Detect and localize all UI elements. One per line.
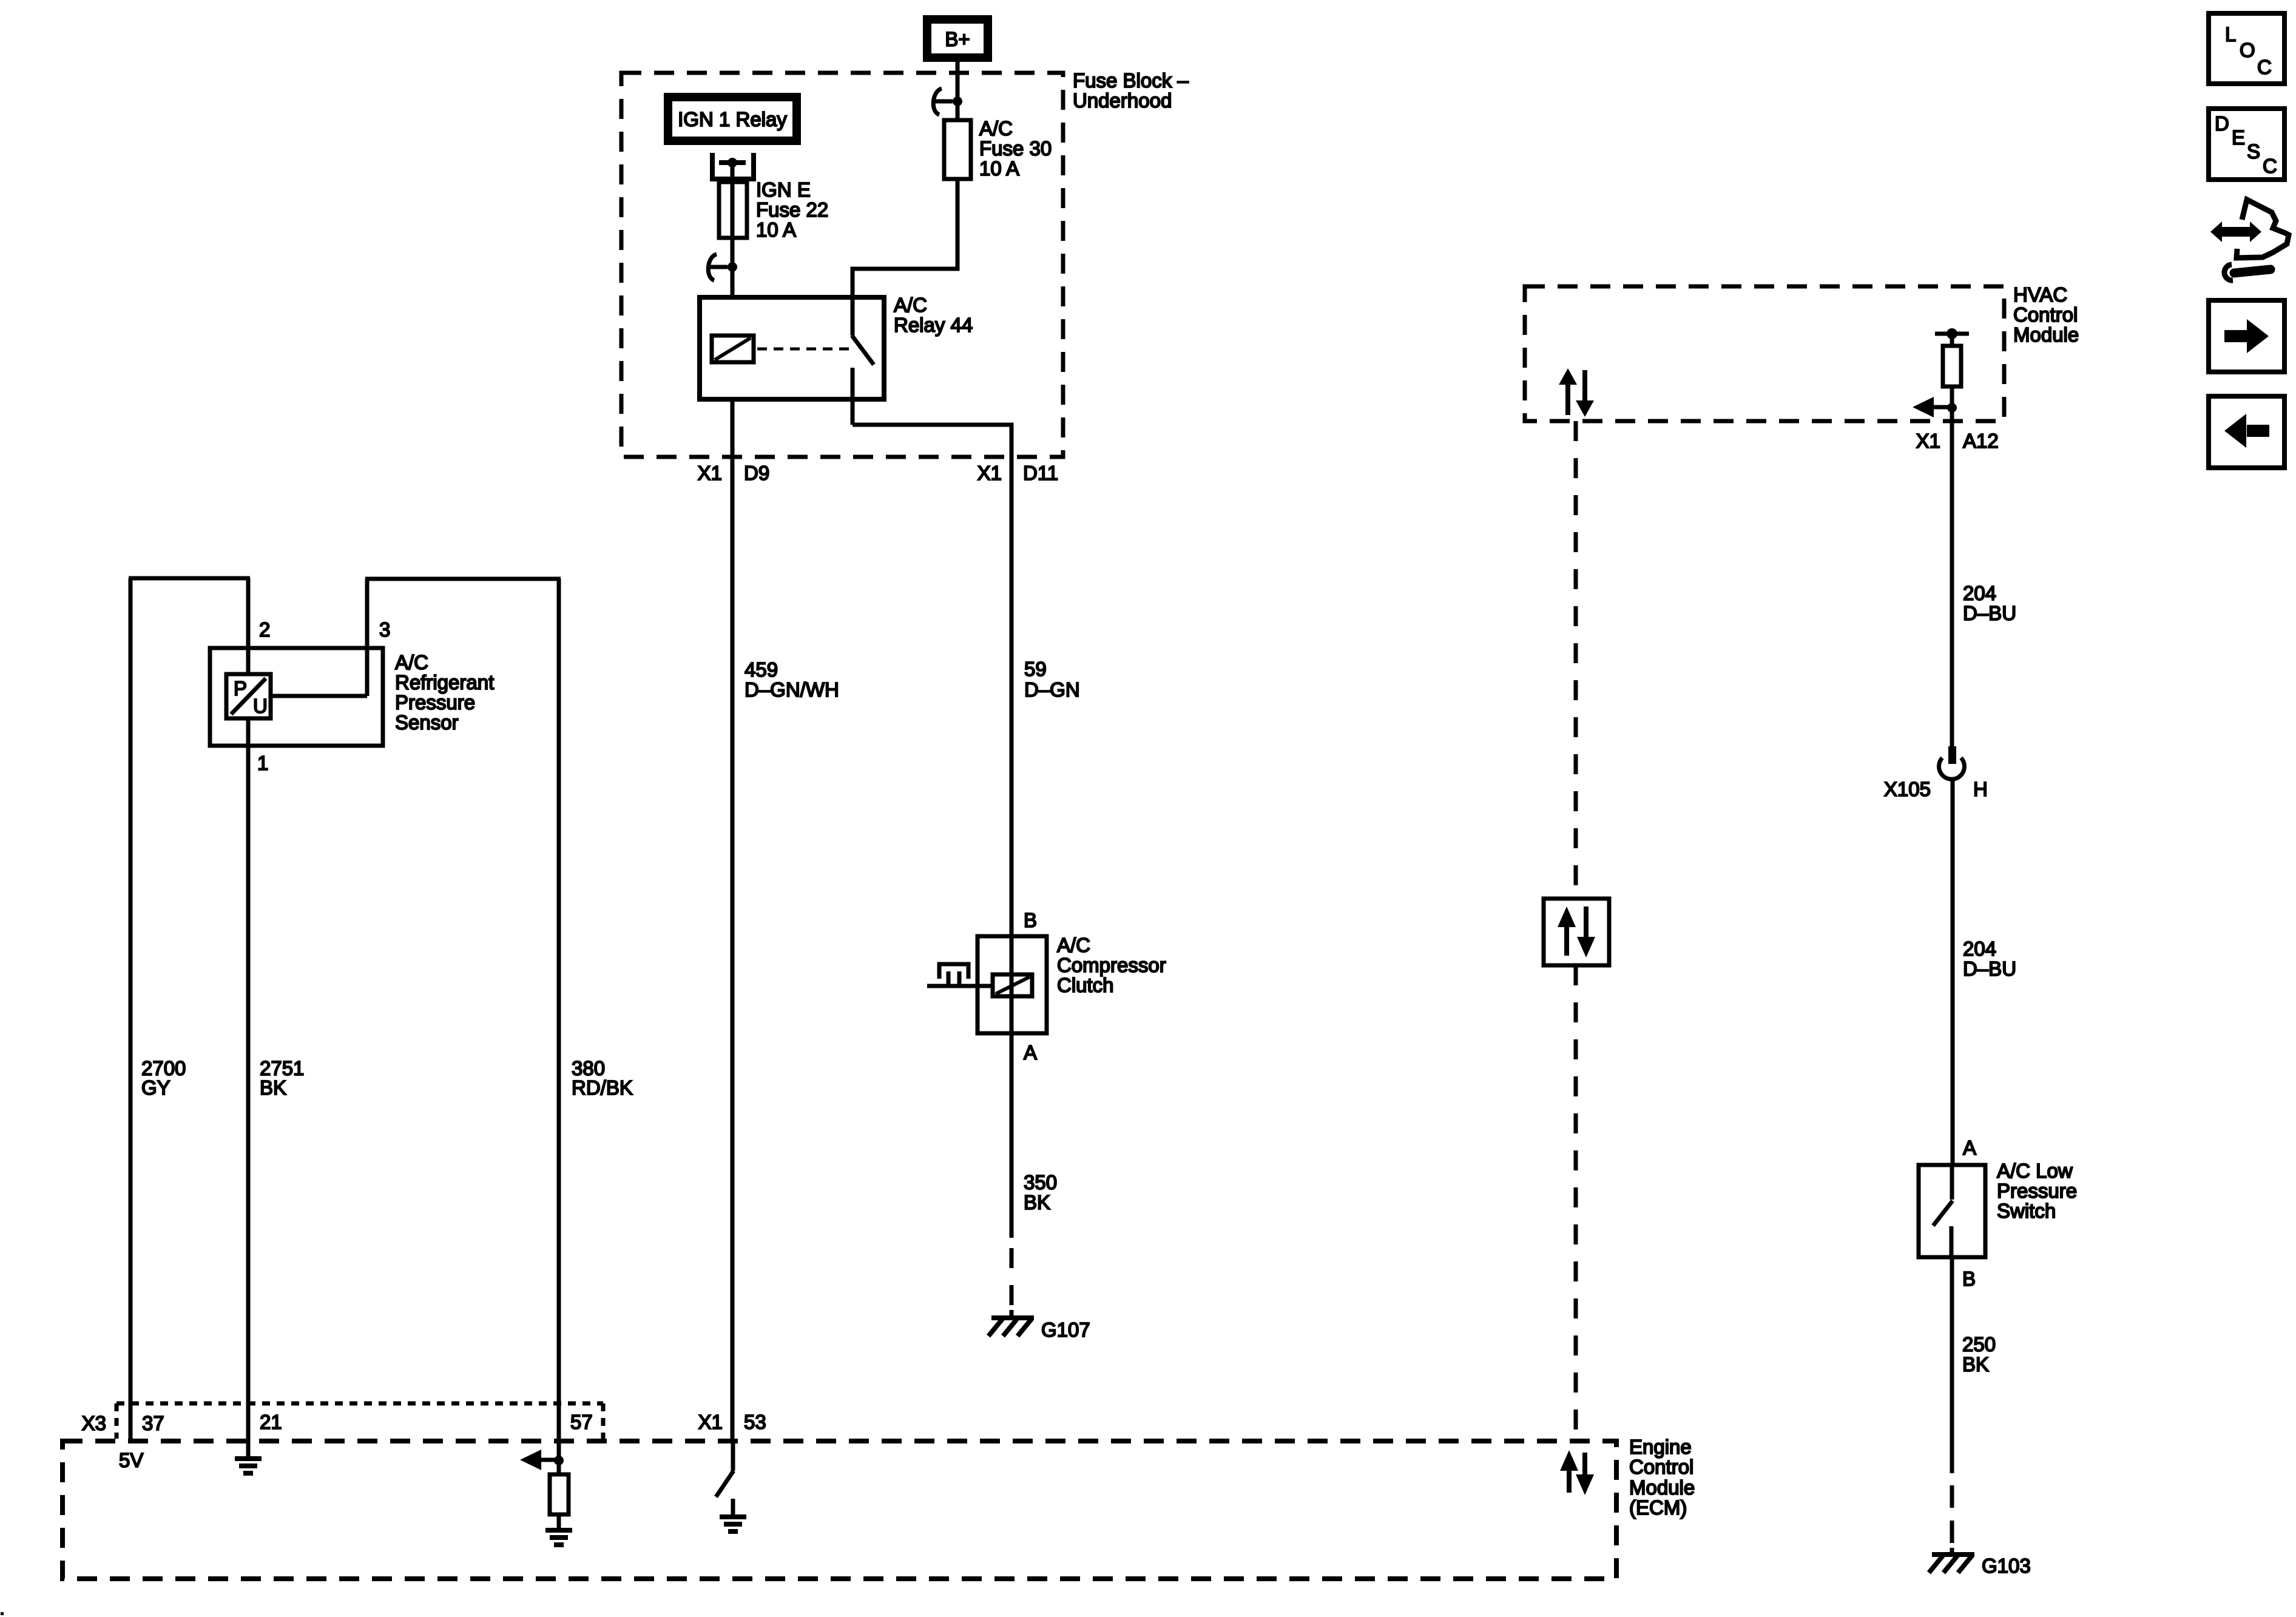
svg-text:O: O [2240,39,2255,61]
ECM dashed box [62,1441,1616,1579]
svg-text:Fuse 22: Fuse 22 [756,198,828,221]
svg-text:53: 53 [744,1411,766,1433]
svg-text:X1: X1 [1916,430,1940,452]
wire 350 label [1024,1171,1057,1214]
wire 350 BK dashed tail [1010,1248,1014,1305]
svg-text:D–GN/WH: D–GN/WH [745,678,839,701]
serial data boxed arrows symbol [1544,899,1609,965]
svg-text:Control: Control [1629,1456,1693,1478]
svg-text:Relay 44: Relay 44 [894,314,973,336]
connector pin label X1 D9 [698,462,770,484]
HVAC serial data arrows [1559,368,1594,417]
svg-text:A: A [1963,1136,1976,1159]
fuse block underhood dashed box [621,73,1063,457]
svg-text:B: B [1024,909,1037,931]
sensor label [395,651,494,734]
wire 2751 label [260,1057,304,1099]
low pressure switch label [1997,1160,2077,1222]
svg-text:37: 37 [142,1412,164,1434]
svg-text:Fuse Block –: Fuse Block – [1073,69,1189,92]
svg-text:Control: Control [2013,303,2078,326]
svg-text:Engine: Engine [1629,1436,1692,1458]
svg-text:D–GN: D–GN [1024,678,1080,701]
svg-text:204: 204 [1963,937,1996,960]
connector pin label X1 A12 [1916,430,1999,452]
svg-text:S: S [2247,140,2260,163]
ECM signal ground under pin 53 [720,1499,746,1531]
svg-text:E: E [2232,126,2245,149]
svg-text:250: 250 [1962,1333,1996,1355]
wire B+ to fuse 30 [956,62,960,120]
ECM pin 53 labels X1 53 [698,1411,766,1433]
svg-text:350: 350 [1024,1171,1057,1193]
serial data dashed wire lower [1574,965,1578,1441]
relay K44 armature dashed link [757,348,849,351]
ECM label [1629,1436,1695,1519]
icon forward arrow button [2209,300,2284,372]
svg-text:X1: X1 [698,462,722,484]
svg-text:204: 204 [1963,582,1996,604]
wire 250 BK dashed tail [1950,1485,1954,1543]
svg-text:L: L [2225,23,2236,46]
wire 204 upper label [1963,582,2016,624]
svg-text:U: U [253,695,268,717]
svg-text:BK: BK [1024,1191,1050,1214]
svg-text:Compressor: Compressor [1057,954,1166,976]
svg-text:D: D [2215,112,2229,135]
svg-text:A12: A12 [1963,430,1999,452]
wire relay switch to X1 D11 jog [853,425,1011,459]
relay K44 A/C Relay box [700,297,884,399]
wire 459 label [745,658,839,701]
wire 380 RD/BK (to ECM pin 57) [557,579,561,1441]
svg-text:X105: X105 [1884,778,1931,800]
svg-text:X3: X3 [82,1412,106,1434]
wire sensor pin 2 to ECM pin 21 [246,578,251,1441]
svg-text:A/C: A/C [1057,934,1090,956]
wire 380 label [572,1057,633,1099]
svg-text:Pressure: Pressure [1997,1180,2077,1202]
svg-text:B+: B+ [945,28,970,50]
svg-text:RD/BK: RD/BK [572,1076,633,1099]
wire 350 BK [1010,1033,1014,1238]
A/C low pressure switch box [1919,1165,1985,1257]
svg-text:H: H [1973,778,1988,800]
fuse F30 value label [979,117,1052,180]
svg-text:Fuse 30: Fuse 30 [979,137,1052,160]
HVAC output junction and arrow [1913,397,1957,417]
svg-text:BK: BK [1962,1353,1989,1376]
svg-text:2: 2 [259,618,270,641]
sensor P/U transducer symbol [226,674,271,718]
relay socket bracket under IGN 1 Relay [710,153,756,179]
relay K44 coil [712,336,754,362]
wire A12 output down [1950,408,1954,746]
connector clip on ignition feed (node below fuse 22) [708,254,737,280]
svg-text:59: 59 [1024,658,1047,680]
connector pin label X1 D11 [977,462,1058,484]
svg-text:Refrigerant: Refrigerant [395,671,494,694]
svg-text:21: 21 [260,1411,282,1433]
svg-text:A/C: A/C [894,294,927,316]
wire fuse 30 to relay switch [853,179,957,297]
ECM driver switch at pin 53 [716,1441,734,1497]
page corner mark [1,1612,4,1615]
svg-text:10 A: 10 A [979,157,1019,180]
svg-text:1: 1 [257,752,268,774]
svg-text:B: B [1962,1268,1976,1290]
svg-text:5V: 5V [119,1449,143,1471]
ECM pin 57 internal network [520,1441,572,1545]
svg-text:D9: D9 [744,462,769,484]
wire sensor pin 3 drop [365,579,370,696]
A/C compressor clutch box [977,936,1047,1033]
svg-text:A/C: A/C [979,117,1013,140]
svg-text:X1: X1 [977,462,1002,484]
icon back arrow button [2209,396,2284,468]
svg-text:D–BU: D–BU [1963,602,2016,624]
svg-text:GY: GY [141,1076,171,1099]
svg-text:Switch: Switch [1997,1200,2056,1222]
connector X3 dotted outline [116,1403,603,1439]
svg-text:A: A [1024,1041,1037,1064]
ground G103 [1929,1548,2031,1577]
svg-text:10 A: 10 A [756,218,796,241]
svg-text:HVAC: HVAC [2013,283,2067,306]
HVAC module label [2013,283,2079,346]
svg-text:A/C: A/C [395,651,428,673]
icon diagnostic tool [2210,200,2289,280]
wire 5V feed pin 37 [129,578,133,1441]
clutch wire through box [1010,936,1014,1033]
svg-text:P: P [234,677,247,700]
ground G107 [988,1310,1090,1341]
svg-text:IGN E: IGN E [756,178,811,201]
svg-text:C: C [2263,155,2277,177]
icon DESC button [2209,109,2284,180]
relay K44 switch [852,297,874,425]
wire 250 BK [1950,1257,1954,1473]
svg-text:Module: Module [2013,323,2079,346]
ECM signal ground at pin 21 [235,1441,262,1473]
svg-text:3: 3 [379,618,390,641]
svg-text:Pressure: Pressure [395,691,475,714]
clutch actuator meander symbol [927,964,993,986]
inline connector X105 [1884,746,1988,800]
svg-text:Sensor: Sensor [395,711,459,734]
svg-text:IGN 1 Relay: IGN 1 Relay [678,108,787,130]
svg-text:57: 57 [570,1411,593,1433]
icon LOC button [2209,13,2284,84]
svg-text:A/C Low: A/C Low [1997,1160,2073,1182]
fuse F22 IGN E [719,182,747,238]
svg-text:G107: G107 [1041,1318,1090,1341]
wire 204 D-BU lower [1951,780,1955,1163]
A/C refrigerant pressure sensor box [210,648,383,746]
wire staple left (pin37 to sensor pin 2) [129,576,250,581]
HVAC pull-up resistor at A12 [1935,328,1969,408]
clutch coil [993,974,1032,996]
svg-text:D11: D11 [1023,462,1058,484]
power feed B+ [923,15,992,62]
svg-text:C: C [2257,56,2272,78]
svg-text:Underhood: Underhood [1073,89,1172,112]
svg-text:D–BU: D–BU [1963,957,2016,980]
serial data dashed wire upper [1574,421,1578,899]
svg-text:Module: Module [1629,1476,1695,1499]
sensor P/U link line [271,694,367,698]
HVAC control module dashed box [1525,286,2004,421]
fuse block label [1073,69,1189,112]
wire 59 label [1024,658,1080,701]
wire 459 D-GN/WH (relay coil to ECM 53) [731,399,735,1441]
svg-text:BK: BK [260,1076,286,1099]
wire IGN feed down from bracket [731,163,735,297]
connector clip on B+ feed [933,89,962,115]
svg-text:(ECM): (ECM) [1629,1496,1687,1519]
fuse F22 value label [756,178,828,241]
ECM serial data arrows [1560,1450,1594,1495]
svg-text:Clutch: Clutch [1057,974,1114,996]
svg-text:G103: G103 [1982,1555,2031,1577]
wire 2700 label [141,1057,186,1099]
wire 59 D-GN (relay to clutch) [1010,459,1014,936]
fuse F30 A/C [944,120,971,179]
relay label IGN 1 Relay [664,93,801,145]
wire 250 label [1962,1333,1996,1376]
clutch label [1057,934,1166,996]
relay K44 label [894,294,973,336]
svg-text:X1: X1 [698,1411,723,1433]
wire staple right (sensor pin 3 to pin 57) [365,577,561,581]
wire 204 lower label [1963,937,2016,980]
svg-text:459: 459 [745,658,778,681]
